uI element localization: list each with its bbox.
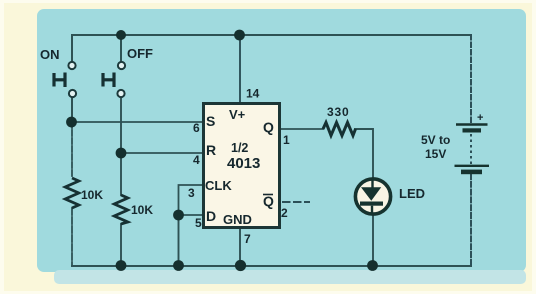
svg-text:3: 3 (188, 186, 195, 200)
wire CLK to D link (179, 185, 203, 215)
svg-text:10K: 10K (81, 188, 103, 202)
node bottom rail 1 (116, 260, 127, 271)
svg-text:14: 14 (246, 87, 260, 101)
svg-text:4: 4 (193, 153, 200, 167)
wire resistor to bottom rail (71, 208, 73, 266)
wire top rail (72, 34, 471, 36)
wire D junction to bottom rail (178, 215, 180, 266)
wire resistor2 to bottom rail (120, 224, 122, 266)
node D junction (173, 210, 184, 221)
LED D1 (355, 179, 390, 215)
svg-text:330: 330 (327, 105, 349, 119)
svg-text:ON: ON (40, 47, 60, 62)
node S junction (66, 117, 77, 128)
svg-text:7: 7 (244, 232, 251, 246)
svg-text:6: 6 (193, 121, 200, 135)
wire battery drop (top) (470, 35, 472, 123)
wire R line (121, 152, 202, 154)
node top rail / V+ (234, 30, 245, 41)
svg-text:LED: LED (399, 186, 425, 201)
Qbar overbar (263, 194, 273, 196)
svg-text:1/2: 1/2 (231, 141, 248, 155)
wire R junction to resistor (120, 153, 122, 195)
svg-text:15V: 15V (425, 147, 446, 161)
wire S line (72, 121, 202, 123)
svg-text:10K: 10K (131, 203, 153, 217)
wire ON branch upper (71, 35, 73, 62)
svg-text:R: R (206, 142, 216, 158)
svg-text:S: S (206, 113, 215, 129)
wire V+ pin 14 (239, 35, 241, 102)
wire OFF branch upper (120, 35, 122, 62)
node top rail / OFF (116, 30, 126, 40)
svg-text:5V to: 5V to (421, 133, 450, 147)
svg-text:1: 1 (283, 133, 290, 147)
resistor 10K left (65, 178, 79, 208)
svg-text:Q: Q (263, 119, 274, 135)
wire resistor 330 to LED (355, 129, 373, 179)
wire OFF branch to R junction (120, 97, 122, 153)
svg-text:+: + (477, 112, 483, 124)
svg-text:D: D (206, 208, 216, 224)
node bottom rail 4 (367, 260, 378, 271)
pushbutton OFF (103, 62, 125, 97)
svg-text:5: 5 (195, 216, 202, 230)
svg-text:2: 2 (281, 206, 288, 220)
resistor 330 (323, 123, 356, 136)
svg-text:OFF: OFF (127, 46, 153, 61)
node bottom rail 3 (235, 260, 246, 271)
svg-text:V+: V+ (229, 107, 246, 122)
svg-text:GND: GND (223, 212, 252, 227)
resistor 10K right (114, 195, 128, 224)
svg-text:4013: 4013 (227, 155, 260, 172)
svg-text:Q: Q (263, 193, 274, 209)
wire bottom rail (72, 265, 471, 267)
svg-text:CLK: CLK (205, 178, 232, 193)
wire D line (179, 214, 203, 216)
wire S junction to resistor (71, 122, 73, 178)
node R junction (116, 148, 127, 159)
wire Qbar dashed stub (283, 201, 309, 203)
wire battery to bottom rail (470, 174, 472, 266)
battery B1 (455, 125, 490, 175)
wire Q output to resistor 330 (281, 128, 323, 130)
wire LED to bottom rail (372, 215, 374, 266)
wire GND pin 7 (239, 229, 241, 266)
node bottom rail 2 (173, 260, 184, 271)
IC U1 4013 body (204, 104, 280, 228)
wire ON branch to S junction (71, 97, 73, 122)
pushbutton ON (54, 62, 76, 97)
